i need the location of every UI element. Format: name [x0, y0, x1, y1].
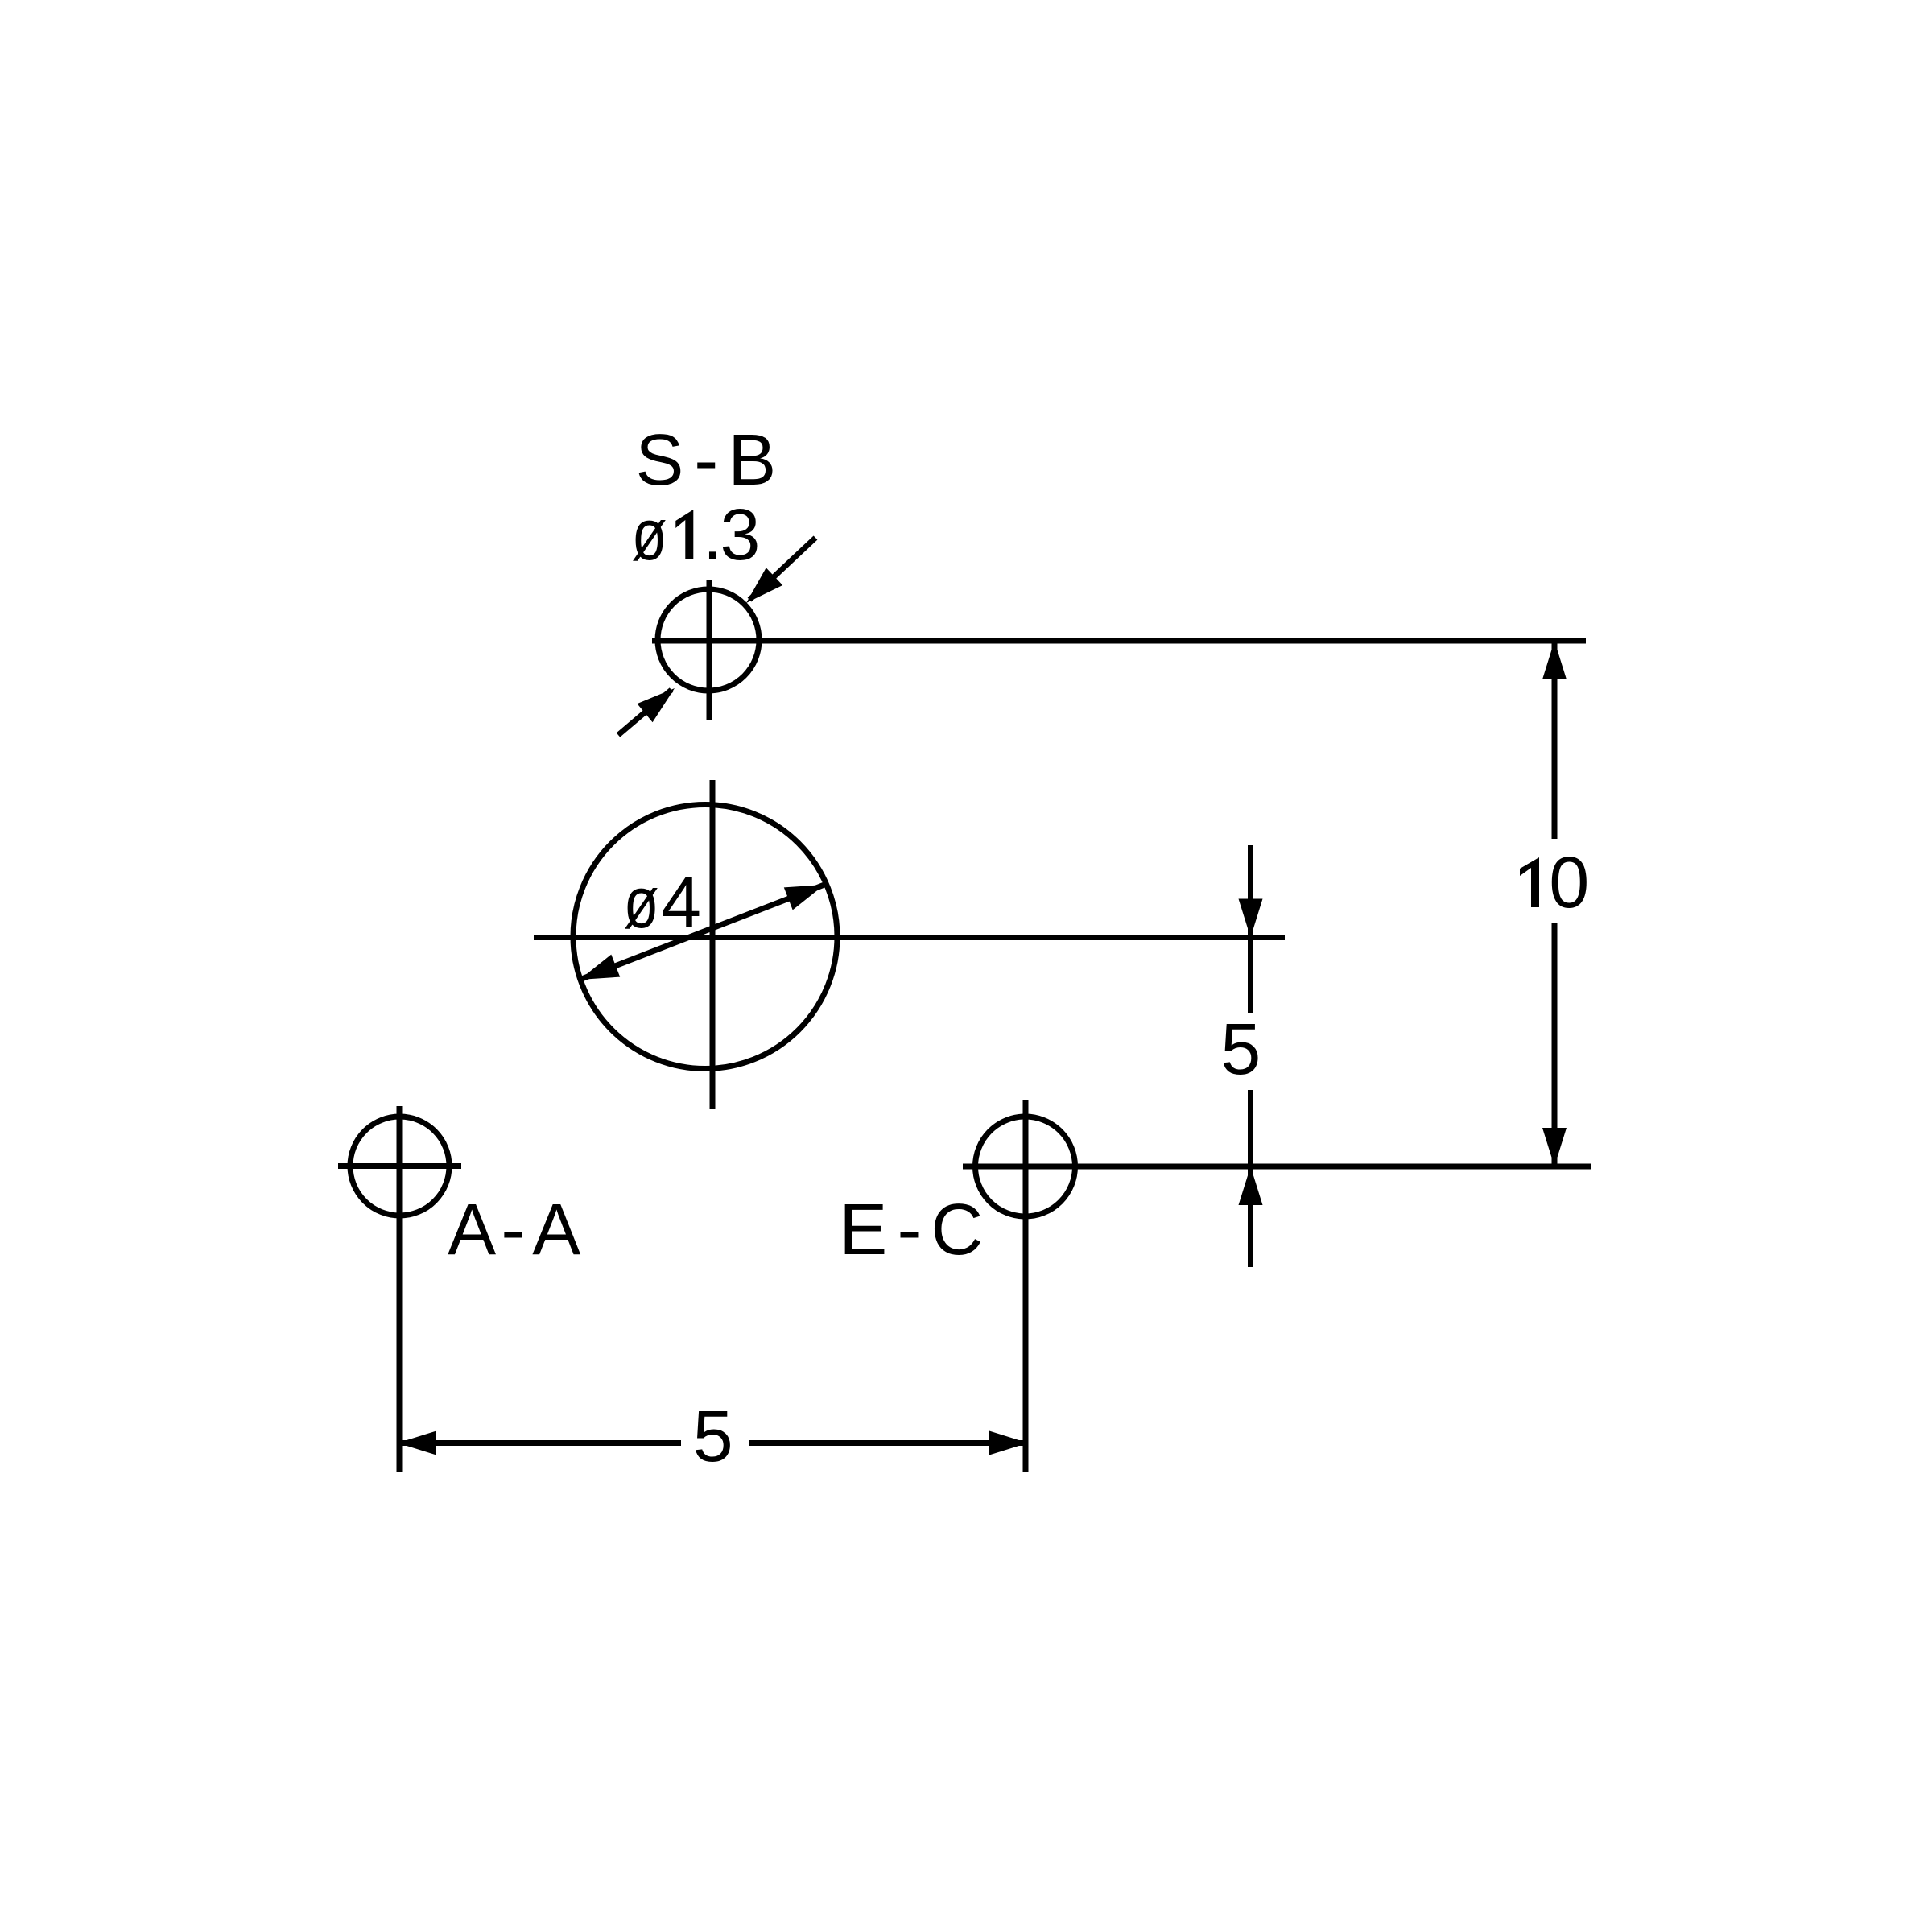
- dimension 5 horizontal arrowhead right: [989, 1431, 1028, 1455]
- svg-text:ø: ø: [632, 494, 667, 575]
- ø4 diameter arrowhead lower-left: [580, 955, 620, 980]
- reference line from E-C hole (bottom extension of 10 dim): [963, 1164, 1591, 1170]
- hole E-C extension line vertical: [1023, 1100, 1029, 1472]
- hole S-B circle: [658, 589, 759, 691]
- dimension 10 line upper segment: [1552, 641, 1558, 839]
- dimension value 10 digit 1 (custom Arial-style glyph): [1520, 857, 1539, 907]
- dimension 10 arrowhead down: [1542, 1128, 1567, 1166]
- label ø1.3 digit 1 (custom Arial-style glyph): [675, 510, 693, 559]
- hole E-C circle: [976, 1117, 1075, 1216]
- hole A-A extension line vertical: [397, 1106, 402, 1472]
- hole S-B crosshair vertical: [707, 580, 712, 720]
- hole A-A circle: [350, 1117, 449, 1216]
- hole ø4 centerline horizontal (extension of 5 dim): [534, 935, 1285, 940]
- dimension 5 horizontal left segment: [398, 1440, 681, 1446]
- ø1.3 leader arrow upper-right shaft: [749, 538, 815, 600]
- svg-text:5: 5: [1220, 1009, 1261, 1090]
- hole ø4 crosshair vertical: [710, 780, 716, 1109]
- dimension 5 vertical arrowhead down: [1239, 899, 1263, 938]
- ø1.3 arrowhead upper-right: [746, 568, 782, 603]
- ø1.3 leader arrow lower-left shaft: [618, 690, 671, 735]
- svg-text:A-A: A-A: [448, 1190, 580, 1270]
- dimension 10 line lower segment: [1552, 923, 1558, 1166]
- dimension 10 arrowhead up: [1542, 641, 1567, 679]
- svg-text:ø: ø: [624, 862, 659, 943]
- ø4 diameter arrowhead upper-right: [784, 885, 824, 910]
- reference line from S-B hole (top extension of 10 dim): [652, 638, 1586, 644]
- dimension 5 vertical arrowhead up: [1239, 1166, 1263, 1205]
- hole A-A crosshair horizontal: [338, 1163, 461, 1169]
- ø4 diameter dimension line: [580, 885, 824, 980]
- svg-text:S-B: S-B: [635, 420, 776, 501]
- hole ø4 circle: [573, 805, 837, 1069]
- svg-text:E-C: E-C: [839, 1190, 983, 1270]
- svg-text:0: 0: [1549, 843, 1589, 923]
- svg-text:4: 4: [661, 863, 701, 943]
- svg-text:5: 5: [693, 1397, 733, 1477]
- dimension 5 vertical upper segment: [1248, 845, 1253, 1013]
- ø1.3 arrowhead lower-left: [638, 688, 675, 722]
- svg-text:.3: .3: [703, 495, 761, 576]
- dimension 5 vertical lower segment: [1248, 1090, 1253, 1267]
- dimension 5 horizontal right segment: [749, 1440, 1028, 1446]
- dimension 5 horizontal arrowhead left: [398, 1431, 436, 1455]
